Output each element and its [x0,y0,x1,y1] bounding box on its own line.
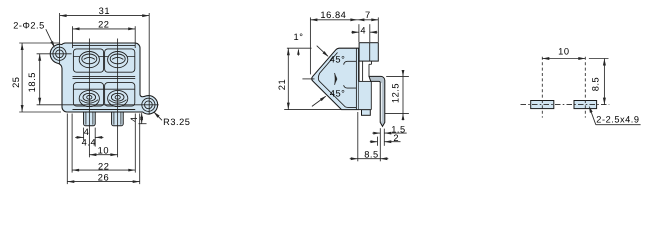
dim 1.5 [379,128,381,161]
bent solder pin (side view) [369,76,385,126]
svg-text:2-2.5x4.9: 2-2.5x4.9 [596,114,639,124]
dim 4 (tab) [358,24,360,42]
svg-text:R3.25: R3.25 [163,117,190,127]
dim 26 [66,114,68,185]
svg-text:4: 4 [360,26,366,36]
ear hole top-left 2-dia2.5 [53,47,66,60]
svg-text:21: 21 [277,79,287,90]
dim 21 [284,109,342,111]
screw terminals lower row [79,90,99,106]
dim 18.5 [39,54,41,105]
screw terminals upper row [79,52,99,68]
crosshair ear2 / extension lines [148,13,150,115]
svg-text:4: 4 [84,127,90,137]
dim 4 / 4.4 pin width [83,128,85,141]
dim 22 top [73,28,136,30]
side view inner wall lines [318,53,356,108]
dim 8.5 (side) [357,112,359,161]
foot [362,110,371,116]
svg-text:16.84: 16.84 [320,10,346,20]
svg-text:4.4: 4.4 [82,137,97,147]
svg-text:26: 26 [98,172,109,182]
dim 22 bottom [71,114,73,173]
dim 12.5 [386,75,409,77]
svg-text:2-Φ2.5: 2-Φ2.5 [13,20,45,30]
dim 25 [21,43,23,112]
svg-text:31: 31 [99,6,110,16]
dim 8.5 (pads) [589,58,609,60]
svg-text:12.5: 12.5 [390,83,400,103]
svg-text:22: 22 [98,161,109,171]
pin left (front view) [84,112,96,126]
svg-text:2: 2 [393,133,399,143]
front view: terminal block body with mounting ears [50,43,157,114]
dim 31 [60,15,150,17]
side view body [312,48,359,109]
svg-text:1°: 1° [294,32,304,42]
crosshair ear1 / 31+18.5 extension lines [59,13,61,65]
45deg angle arc with arrows [334,73,337,85]
four terminal cells [73,49,103,72]
step under tab [371,61,373,64]
svg-text:7: 7 [365,10,371,20]
dim 16.84 [309,17,311,74]
pad right [574,101,597,109]
center lines dashed [541,57,543,118]
dim 4 vertical (pin protrusion) [141,113,143,124]
dim 10 (pads) [542,58,585,60]
dim 7 [377,17,379,42]
svg-text:25: 25 [11,76,21,87]
pin seat block [359,81,372,109]
svg-text:8.5: 8.5 [591,77,601,92]
svg-text:10: 10 [98,146,109,156]
svg-text:45°: 45° [330,88,346,98]
svg-text:45°: 45° [330,54,346,64]
right wall column [355,48,357,109]
inner terminal block outline lines [73,44,136,46]
pin right (front view) [112,112,124,126]
mounting flange tab [359,43,378,61]
svg-text:10: 10 [558,47,569,57]
svg-text:22: 22 [98,20,109,30]
svg-text:8.5: 8.5 [364,150,379,160]
center lines through terminal columns [88,39,90,158]
dim 10 [89,154,117,156]
dim 2 [377,137,379,146]
svg-text:18.5: 18.5 [27,72,37,92]
pad left [531,101,554,109]
svg-text:4: 4 [129,116,139,122]
ear hole bottom-right [142,98,155,111]
